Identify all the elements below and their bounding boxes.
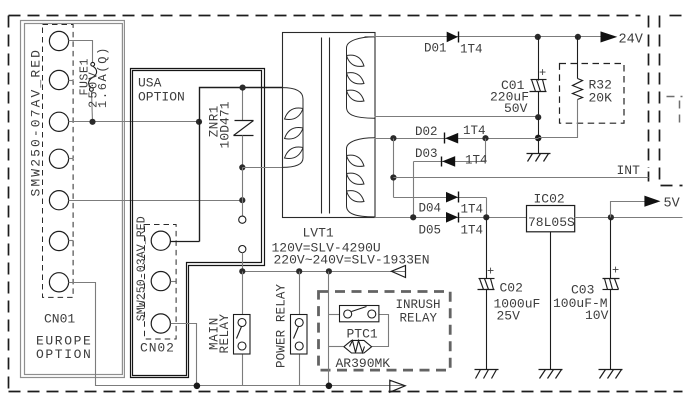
svg-text:D04: D04	[419, 202, 442, 216]
USA option vertical black wire	[200, 88, 283, 242]
junction inrush tap	[326, 268, 332, 274]
relay POWER RELAY	[291, 315, 308, 355]
wire D04 out vertical	[486, 198, 488, 218]
svg-text:SMW250-03AV_RED: SMW250-03AV_RED	[136, 216, 149, 321]
svg-text:D05: D05	[419, 224, 442, 238]
transformer secondary winding bottom	[347, 138, 375, 217]
svg-text:50V: 50V	[504, 101, 528, 116]
R32 bottom wire	[539, 100, 578, 138]
wire transformer primary return	[243, 167, 283, 169]
CN02 pin2 stub	[171, 281, 176, 283]
diode D05	[446, 212, 459, 223]
ZNR bottom wire to bus	[242, 136, 244, 168]
wire IC02 ground pin	[550, 232, 552, 370]
svg-text:CN02: CN02	[140, 341, 175, 356]
input arrow (open, left)	[391, 266, 405, 278]
junction 5V/C03	[608, 214, 614, 220]
wire relay supply rail	[242, 271, 406, 273]
CN02 pin 2	[151, 272, 170, 291]
CN01 pin 4	[49, 149, 68, 168]
bus wire switch to relay rail	[242, 253, 244, 272]
svg-text:+: +	[539, 66, 546, 80]
transformer secondary winding top	[347, 37, 375, 118]
junction D04/D05 output	[483, 214, 489, 220]
svg-text:IC02: IC02	[534, 192, 565, 207]
svg-text:SMW250-07AV_RED: SMW250-07AV_RED	[29, 48, 44, 197]
CN01 pin 3	[49, 112, 68, 131]
junction pin5 wire on bus	[239, 197, 245, 203]
svg-text:POWER RELAY: POWER RELAY	[275, 283, 289, 368]
junction ZNR bottom / primary return	[239, 164, 245, 170]
ground symbol under C03	[599, 370, 623, 379]
wire power relay bottom	[299, 355, 301, 386]
svg-text:D01: D01	[424, 42, 447, 56]
5V output arrow	[644, 196, 660, 207]
wire D02 rail	[375, 138, 539, 140]
CN01 pin dashed box	[43, 25, 74, 298]
junction bus / relay rail	[239, 268, 245, 274]
wire power relay top	[299, 272, 301, 315]
wire inrush relay left	[329, 314, 340, 316]
wire C01 to ground rail	[538, 118, 540, 154]
diode D04	[446, 192, 459, 203]
connector CN02 pin dashed box	[145, 225, 177, 340]
capacitor C02 symbol	[478, 279, 495, 290]
ground symbol under C01	[527, 154, 551, 162]
wire D03 rail	[414, 161, 486, 163]
junction bottom left	[194, 383, 201, 390]
capacitor C03 wire	[610, 218, 612, 370]
svg-text:OPTION: OPTION	[36, 347, 92, 362]
wire PTC left	[329, 346, 344, 348]
capacitor C03 symbol	[603, 279, 620, 290]
switch contact circles	[239, 216, 246, 223]
CN01 pin 6	[49, 231, 68, 250]
relay INRUSH contact	[340, 306, 379, 322]
svg-text:PTC1: PTC1	[347, 327, 378, 342]
svg-text:1T4: 1T4	[461, 224, 484, 238]
svg-text:+: +	[612, 264, 619, 278]
wire CN01 pin7 down and right to bottom node	[69, 283, 197, 386]
resistor R32 dashed box	[560, 64, 625, 124]
svg-text:AR390MK: AR390MK	[336, 356, 391, 371]
svg-text:220V~240V=SLV-1933EN: 220V~240V=SLV-1933EN	[274, 253, 430, 268]
svg-text:C02: C02	[500, 281, 523, 296]
ground symbol under IC02	[539, 370, 563, 379]
junction transformer D02 tap	[390, 135, 396, 141]
svg-text:USA: USA	[138, 76, 162, 91]
INRUSH RELAY dashed box	[319, 292, 451, 371]
diode D01	[447, 32, 459, 43]
svg-text:1T4: 1T4	[465, 154, 488, 168]
next-sheet dashed corner	[667, 97, 683, 127]
resistor R32 zigzag	[573, 79, 583, 100]
wire inrush bus vertical	[328, 272, 330, 386]
junction C01 bottom	[535, 114, 541, 120]
output arrow (open, right)	[390, 380, 405, 392]
svg-text:1T4: 1T4	[461, 203, 484, 217]
CN02 pin3 wire to bottom node	[171, 324, 197, 386]
CN01 pin 7	[49, 273, 68, 292]
capacitor C01 wire	[538, 37, 540, 118]
svg-text:OPTION: OPTION	[138, 90, 185, 105]
svg-text:LVT1: LVT1	[303, 226, 334, 241]
R32 top wire	[577, 37, 579, 79]
junction fuse/pin3	[89, 119, 95, 125]
diode D03 (points left)	[442, 156, 456, 167]
svg-text:10V: 10V	[585, 308, 609, 323]
wire CN01 pin5 to bus	[69, 200, 243, 202]
CN01 pin 5	[49, 191, 68, 210]
svg-text:20K: 20K	[589, 91, 613, 106]
wire transformer tap2 to C01 bottom	[375, 116, 539, 118]
wire bottom return rail	[197, 385, 406, 387]
fuse FUSE1	[89, 62, 97, 91]
transformer primary winding	[282, 88, 303, 168]
wire inrush relay right	[372, 315, 389, 347]
regulator IC02 box	[527, 206, 575, 232]
svg-text:CN01: CN01	[44, 312, 75, 327]
24V output arrow	[601, 31, 618, 42]
wire D05 rail	[375, 217, 527, 219]
transformer mid tap vertical	[393, 139, 395, 198]
junction power relay tap	[296, 268, 302, 274]
CN02 pin 1	[151, 231, 170, 250]
wire D03 left vertical to bottom rail	[413, 162, 415, 218]
svg-text:78L05S: 78L05S	[528, 215, 575, 230]
svg-text:1.6A(Q): 1.6A(Q)	[96, 46, 110, 108]
wire fuse to pin3 wire	[92, 92, 93, 122]
wire main relay top	[242, 272, 244, 315]
USA OPTION L-shaped box	[131, 69, 265, 378]
transformer LVT1 box	[283, 33, 376, 218]
junction R32 top	[575, 34, 581, 40]
capacitor C02 wire	[486, 218, 488, 370]
wire CN01 pin3 to node	[69, 121, 199, 123]
capacitor C01 symbol	[530, 80, 547, 92]
connector CN01 box (EUROPE OPTION)	[21, 21, 125, 378]
svg-text:INT: INT	[617, 163, 641, 178]
transformer core lines	[321, 38, 323, 214]
svg-text:RELAY: RELAY	[218, 313, 232, 353]
diode D02 (points left)	[445, 133, 459, 144]
svg-text:10D471: 10D471	[218, 101, 233, 148]
wire pin1 to fuse	[69, 41, 93, 63]
svg-text:25V: 25V	[497, 309, 521, 324]
bus wire down to switch	[242, 168, 244, 217]
relay MAIN RELAY	[234, 315, 251, 355]
wire D03 branch vertical	[485, 139, 487, 162]
junction INT tap	[390, 174, 396, 180]
junction pin3 wire / USA vertical wire	[196, 119, 202, 125]
junction D02 right	[482, 135, 488, 141]
wire D04 rail	[394, 197, 487, 199]
svg-text:1T4: 1T4	[460, 43, 483, 57]
svg-text:1T4: 1T4	[463, 124, 486, 138]
svg-text:5V: 5V	[664, 197, 681, 212]
svg-text:D03: D03	[415, 147, 438, 161]
thermistor PTC1	[344, 340, 372, 353]
svg-text:INRUSH: INRUSH	[396, 298, 441, 312]
ground symbol under C02	[475, 370, 499, 379]
CN02 pin1 stub wire	[171, 241, 200, 243]
CN02 pin 3	[151, 314, 170, 333]
wire INT line	[394, 177, 649, 179]
svg-text:+: +	[487, 265, 494, 279]
wire IC02 output rail	[575, 217, 683, 219]
wire main relay bottom	[242, 355, 244, 386]
wire 24V rail	[365, 36, 601, 38]
svg-text:D02: D02	[415, 125, 438, 139]
junction ZNR top	[240, 85, 246, 91]
varistor ZNR1 wire top	[242, 88, 244, 121]
junction ground rail	[535, 135, 542, 142]
wire 5V stub	[611, 202, 645, 218]
CN01 pin 2	[49, 70, 68, 89]
junction D03 branch on D05 rail	[410, 214, 416, 220]
varistor ZNR1 symbol	[234, 121, 254, 136]
junction C01 top	[535, 34, 541, 40]
svg-text:RELAY: RELAY	[400, 312, 438, 326]
svg-text:24V: 24V	[619, 33, 644, 48]
CN01 pin stubs	[69, 81, 74, 241]
CN01 pin 1	[49, 31, 68, 50]
junction inrush bus bottom	[326, 383, 333, 390]
